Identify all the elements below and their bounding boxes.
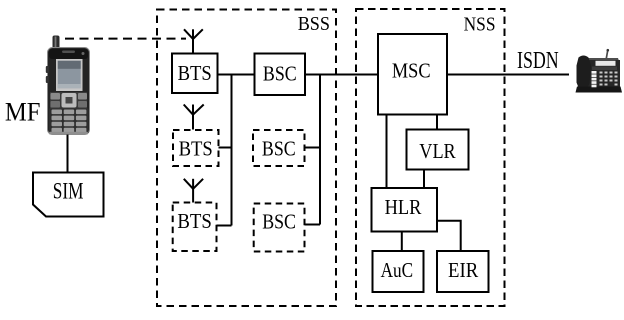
svg-text:BTS: BTS <box>178 61 212 85</box>
BTS1 box <box>172 54 218 94</box>
antenna of BTS3 <box>184 179 203 203</box>
ISDN desk phone icon <box>576 49 623 93</box>
svg-text:VLR: VLR <box>419 139 456 163</box>
bus wire BTS column (vertical) <box>231 75 233 226</box>
VLR box <box>407 130 469 170</box>
svg-text:HLR: HLR <box>385 195 422 219</box>
svg-text:MF: MF <box>5 97 41 127</box>
svg-text:AuC: AuC <box>381 258 414 282</box>
wire MS to SIM <box>67 135 69 173</box>
svg-text:BTS: BTS <box>177 209 212 233</box>
BSC2 box (dashed) <box>253 130 305 166</box>
svg-text:BSC: BSC <box>263 62 297 86</box>
svg-text:BSC: BSC <box>262 137 296 161</box>
wire BTS2 stub <box>219 147 232 149</box>
svg-text:BTS: BTS <box>179 137 213 161</box>
antenna of BTS2 <box>184 105 204 130</box>
svg-text:EIR: EIR <box>448 258 479 282</box>
BTS2 box (dashed) <box>173 130 219 166</box>
wire MSC to ISDN/PSTN phone <box>447 74 569 76</box>
AuC box <box>373 251 424 292</box>
wire MSC to HLR <box>386 115 388 189</box>
svg-text:BSS: BSS <box>298 13 330 35</box>
wire HLR to EIR (elbow) <box>437 221 461 251</box>
wire VLR to HLR <box>423 170 425 189</box>
SIM card box <box>33 173 104 217</box>
mobile station MS (cell phone icon) <box>46 36 90 135</box>
wire BSC3 stub <box>305 224 321 226</box>
svg-text:SIM: SIM <box>53 178 84 203</box>
svg-text:BSC: BSC <box>262 210 296 234</box>
wire BSC2 stub <box>305 147 321 149</box>
EIR box <box>437 251 489 292</box>
BTS3 box (dashed) <box>173 203 217 252</box>
bus wire BSC column (vertical) <box>319 75 321 225</box>
wire MSC to VLR <box>436 115 438 130</box>
HLR box <box>372 188 438 232</box>
BSC3 box (dashed) <box>254 204 305 252</box>
svg-text:MSC: MSC <box>392 59 431 83</box>
wire BTS1 to BSC1 <box>218 74 255 76</box>
svg-text:ISDN: ISDN <box>517 47 559 74</box>
MSC box <box>378 34 447 115</box>
radio link MS to BTS1 (dashed) <box>65 38 186 40</box>
wire BTS3 stub <box>217 225 232 227</box>
wire BSC1 to MSC <box>305 74 378 76</box>
antenna of BTS1 <box>184 29 203 53</box>
wire HLR to AuC <box>401 232 403 252</box>
BSC1 box <box>255 54 306 96</box>
NSS boundary (dashed box) <box>356 9 505 306</box>
BSS boundary (dashed box) <box>157 10 336 307</box>
svg-text:NSS: NSS <box>464 13 496 35</box>
